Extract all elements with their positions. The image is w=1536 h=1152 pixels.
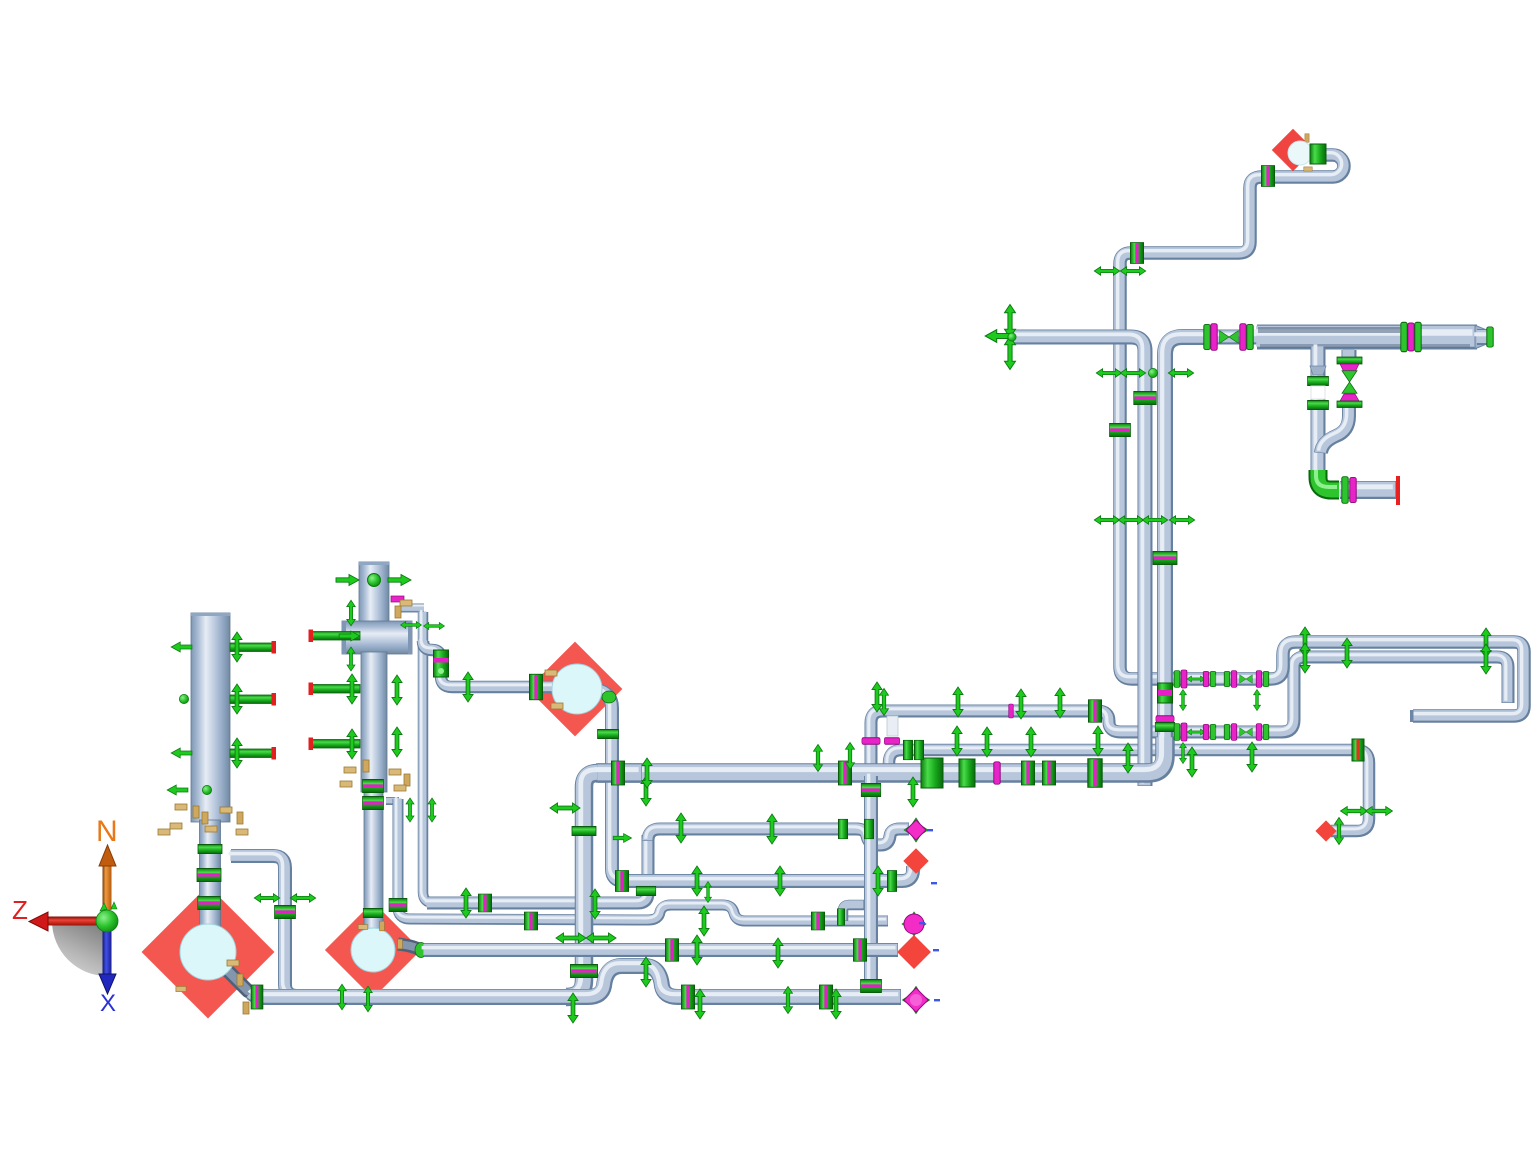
- supports row R3a: [461, 888, 471, 918]
- wire run y657/y711/lower valve row manifold: [871, 657, 1508, 770]
- red striped clamp on line y750: [1352, 739, 1364, 761]
- supports line y750: [952, 726, 962, 756]
- end marker red dot bottom right: [1315, 820, 1336, 841]
- axis quarter disc: [52, 921, 107, 976]
- end marker big red diamond row R4: [897, 935, 931, 969]
- supports row R1: [641, 776, 651, 806]
- pipe row R4: [424, 943, 898, 957]
- clamps column C2: [363, 780, 384, 793]
- big clamp on line y773: [1088, 759, 1102, 788]
- column C2 lower neck: [364, 790, 383, 930]
- clamp on riser v1165 upper: [1153, 552, 1177, 565]
- supports bottom right end: [1335, 818, 1344, 845]
- pipe drop v872: [864, 776, 878, 991]
- control valve V1349 body: [1342, 371, 1357, 394]
- svg-text:X: X: [100, 990, 116, 1017]
- nozzle N1c on column C1: [230, 749, 272, 758]
- supports column C1: [171, 642, 192, 652]
- clamp on drop v1145: [1134, 392, 1157, 405]
- support feed D3: [463, 672, 473, 702]
- axis X arrow: [103, 928, 112, 978]
- clamp on drop v1120: [1110, 424, 1131, 437]
- supports near v584: [556, 933, 586, 943]
- end marker red diamond row R2: [903, 848, 928, 873]
- pipe small bore v423 from instrument: [423, 612, 434, 903]
- wire header reducer: [1475, 326, 1489, 348]
- supports column C2: [336, 575, 359, 586]
- valve assembly on header y337: [1204, 324, 1210, 349]
- control valve V1349 bottom flange: [1340, 394, 1359, 401]
- pipe stub instrument to v423: [401, 604, 424, 613]
- pipe stub row R3b to drop v872: [843, 905, 864, 921]
- clamps row R5: [251, 985, 263, 1009]
- nozzle stub D1 45deg: [224, 967, 248, 991]
- end marker magenta hex row R5: [903, 987, 930, 1014]
- white valve on drop v872: [887, 716, 898, 736]
- wire insulated header y337: [1257, 325, 1477, 350]
- pipe small bore v398 + row R3b: [398, 799, 888, 921]
- valve dot column C2 top: [368, 574, 381, 587]
- shadow band on insulated header: [1258, 327, 1400, 333]
- pipe branch from C1 v285: [231, 856, 297, 996]
- valve manifold row upper y679: [1174, 670, 1269, 688]
- flange on feed to D3: [530, 674, 543, 700]
- wire main line y773: [596, 738, 1165, 773]
- anchor circle D3: [552, 664, 602, 714]
- flange pair on drain outlet: [1342, 477, 1348, 504]
- hanger bits anchor D2: [358, 925, 368, 930]
- pipe control valve s-bend: [1321, 407, 1349, 453]
- anchor circle D1: [180, 924, 236, 980]
- clamp on line y773 mid: [839, 761, 852, 785]
- wire run y750 to bottom-right: [889, 750, 1369, 831]
- clamps row R1: [839, 819, 848, 839]
- clamps drop v584: [572, 827, 596, 836]
- clamp drop v285: [275, 906, 296, 919]
- wire valve spool y337: [1204, 330, 1260, 345]
- clamp on line y253: [1131, 243, 1144, 264]
- column C1 lower neck: [200, 820, 221, 928]
- clamps on drain drop v1318: [1308, 377, 1329, 386]
- anchor circle D2: [351, 928, 395, 972]
- axis origin sphere: [96, 910, 118, 932]
- clamp pair on line y773: [1022, 761, 1035, 785]
- valve manifold row lower y732: [1174, 723, 1269, 741]
- nozzle cap red: [272, 641, 277, 654]
- red end flange on drain outlet: [1396, 476, 1400, 505]
- clamp drop v648: [636, 887, 656, 896]
- valve block on line y773: [921, 758, 943, 788]
- supports lines y642 y657: [1300, 627, 1310, 657]
- flange pair on insulated header: [1401, 322, 1407, 351]
- svg-text:N: N: [96, 815, 118, 848]
- clamps row R2: [616, 871, 629, 892]
- flange clamp on riser v1165 lower: [1156, 716, 1174, 722]
- clamp on line y711: [1089, 700, 1102, 723]
- clamp on line y773 at vert v612: [612, 761, 625, 785]
- support cluster header west end: [1005, 305, 1016, 338]
- end cap line y715: [1410, 710, 1414, 722]
- clamp drop v612: [598, 730, 619, 739]
- pipe jog feed to D3: [423, 641, 572, 687]
- clamp on line y172: [1262, 166, 1275, 187]
- nozzle N2a on column C2: [311, 632, 360, 641]
- valve at top corner: [1310, 144, 1326, 164]
- green fitting at anchor D2 outlet: [415, 943, 427, 958]
- red anchor diamond D3: [528, 642, 623, 737]
- end marker magenta diamond row R1: [904, 818, 928, 842]
- clamp row R3a: [479, 894, 492, 912]
- supports line y773: [642, 758, 652, 788]
- column C2 upper shell: [359, 562, 389, 624]
- nozzle N1b on column C1: [230, 695, 272, 704]
- column C1 shell: [191, 613, 230, 822]
- valve on v441 feed: [434, 650, 449, 677]
- wire run y253/upper valve row/y642/y715: [1120, 155, 1524, 716]
- wire y773 patch over v612: [598, 763, 642, 783]
- pipe drop v584: [566, 773, 598, 997]
- nozzle N1a on column C1: [230, 643, 272, 652]
- svg-text:Z: Z: [12, 895, 28, 925]
- end flange on header: [1487, 327, 1493, 347]
- green fitting at anchor D3 outlet: [602, 691, 616, 703]
- hanger bits anchor D1: [227, 960, 239, 966]
- valve block 2 on line y773: [959, 759, 975, 787]
- pipe row R3a + drop v648: [427, 835, 648, 903]
- reducer on drain drop v1318: [1310, 366, 1326, 375]
- supports row R2: [692, 866, 702, 896]
- column C2 mid shell: [361, 652, 387, 792]
- flange on drop v872: [862, 738, 880, 744]
- node tick marks blue: [927, 829, 933, 831]
- pipe stub column to v398: [386, 797, 399, 805]
- wire big header left + drop v1145: [1007, 337, 1145, 786]
- clamps on line y750: [904, 740, 913, 760]
- nozzle cap red: [272, 693, 277, 706]
- supports line y711: [880, 689, 889, 716]
- red anchor diamond D1: [142, 886, 275, 1019]
- column C2 drum: [342, 621, 412, 654]
- hanger bits anchor D3: [545, 670, 557, 676]
- anchor diamond top corner: [1272, 129, 1314, 171]
- long striped clamp on riser v1165: [1158, 683, 1173, 703]
- wire riser v1165: [1165, 337, 1206, 744]
- supports row R3b: [699, 906, 709, 936]
- pipe drop to drain assembly v1318: [1311, 347, 1326, 486]
- axis Z arrow: [45, 917, 103, 926]
- nozzle N2c on column C2: [311, 740, 360, 749]
- nozzle N2b on column C2: [311, 685, 360, 694]
- pipe drain outlet horizontal: [1340, 481, 1396, 499]
- supports risers mid: [1094, 267, 1120, 276]
- clamps row R4: [666, 939, 679, 962]
- spring hanger cluster column C1: [175, 804, 187, 810]
- nozzle stub D2: [398, 944, 422, 951]
- instrument cluster column C2 top: [391, 596, 404, 602]
- supports row R4: [692, 935, 702, 965]
- axis N arrow: [103, 860, 112, 910]
- clamp v398: [389, 899, 407, 912]
- clamp on drop v872: [861, 784, 881, 797]
- end marker magenta circle row R3b: [902, 912, 926, 936]
- pipe control valve stub: [1342, 350, 1357, 359]
- spring hanger cluster column C2: [344, 767, 356, 773]
- pipe row R5 long bottom run: [252, 966, 901, 997]
- flange on line y773: [994, 762, 1000, 784]
- green painted elbow of drain: [1318, 470, 1339, 490]
- pipe row R1 overpass: [648, 829, 909, 845]
- red anchor diamond D2: [325, 902, 421, 998]
- clamps row R3b: [525, 912, 538, 930]
- pipe drop v612 + row R2: [597, 690, 913, 881]
- supports valve rows: [1180, 690, 1187, 711]
- supports row R5: [568, 993, 578, 1023]
- control valve V1349 top flange: [1337, 357, 1362, 364]
- clamps column C1 neck: [198, 845, 222, 854]
- nozzle cap red: [272, 747, 277, 760]
